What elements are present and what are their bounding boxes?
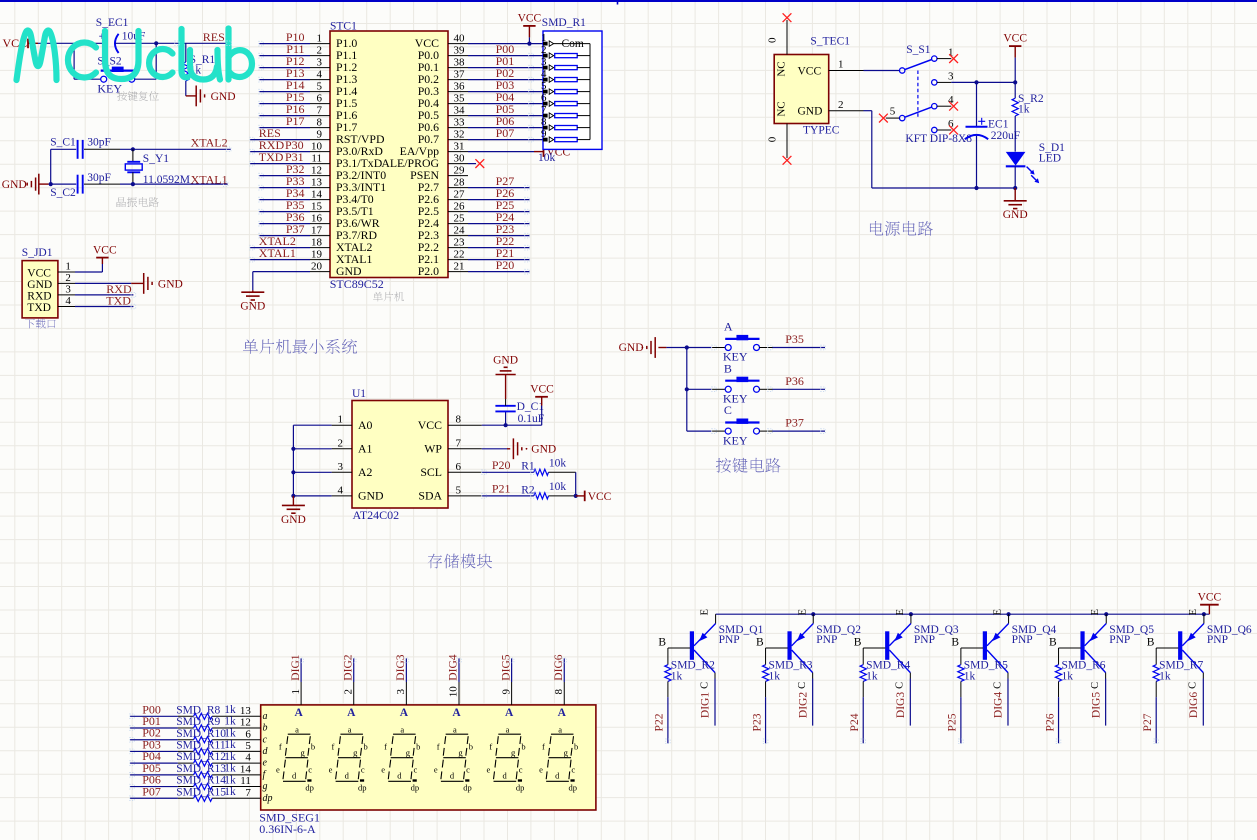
display pin number 5 [245, 740, 251, 752]
svg-text:XTAL1: XTAL1 [191, 173, 228, 187]
svg-text:d: d [450, 770, 455, 780]
svg-text:10k: 10k [538, 152, 556, 164]
svg-text:40: 40 [454, 32, 466, 44]
svg-text:c: c [308, 765, 312, 775]
title cun chu mo kuai [428, 554, 492, 569]
svg-text:1k: 1k [224, 716, 236, 728]
U1 pin numbers [338, 414, 462, 497]
svg-text:P25: P25 [947, 713, 959, 731]
net label DIG5 (driver) [1090, 692, 1102, 718]
svg-text:dp: dp [358, 783, 367, 793]
label KEY C [723, 433, 748, 447]
svg-text:5: 5 [456, 484, 462, 496]
svg-text:KFT DIP-8X8: KFT DIP-8X8 [905, 133, 972, 145]
SMD_R1 pin number 2 [541, 44, 547, 56]
transistor SMD_Q3 PNP [885, 609, 911, 689]
svg-text:39: 39 [454, 44, 466, 56]
MCU STC1 body [330, 31, 448, 278]
display designator SMD_SEG1 [259, 810, 320, 824]
svg-text:C: C [895, 682, 906, 689]
wire net P10 [259, 43, 310, 45]
wire ALE pin30 stub [468, 163, 476, 165]
svg-text:P23: P23 [751, 713, 763, 731]
net label TXD P31 [259, 150, 304, 164]
display SMD_SEG1 body [261, 705, 596, 810]
svg-text:NC: NC [776, 101, 788, 116]
svg-text:2: 2 [65, 272, 71, 284]
wire net P02 (display) [130, 739, 261, 741]
svg-text:B: B [854, 636, 862, 648]
key switch S_S2 [97, 56, 134, 83]
svg-text:a: a [348, 724, 352, 734]
svg-text:P2.0: P2.0 [418, 264, 439, 278]
svg-text:8: 8 [553, 689, 565, 695]
svg-text:b: b [574, 742, 578, 752]
svg-text:10uF: 10uF [122, 30, 146, 42]
SMD_R1 pin number 9 [541, 128, 547, 140]
svg-text:10: 10 [311, 140, 323, 152]
svg-text:DIG5: DIG5 [1090, 692, 1102, 718]
transistor SMD_Q1 labels [719, 624, 764, 646]
svg-text:GND: GND [1003, 209, 1028, 221]
svg-text:22: 22 [454, 248, 465, 260]
svg-text:1k: 1k [224, 751, 236, 763]
SMD_R1 pin number 5 [541, 80, 547, 92]
capacitor S_C2 30pF [50, 172, 111, 199]
wire net P07 (display) [130, 797, 261, 799]
junction node (cap/switch/RES) [154, 41, 158, 45]
ground (reset) [193, 86, 236, 107]
wire net P22 [667, 681, 669, 743]
svg-text:C: C [1090, 682, 1101, 689]
svg-text:b: b [521, 742, 525, 752]
svg-text:P20: P20 [496, 258, 515, 272]
net label P22 [496, 234, 515, 248]
svg-text:0: 0 [767, 136, 779, 142]
wire net P14 [259, 91, 310, 93]
svg-text:KEY: KEY [723, 433, 748, 447]
svg-text:34: 34 [454, 104, 466, 116]
S_S1 pin1 stub [937, 47, 954, 59]
MCU STC1 designator [330, 21, 357, 33]
wire EA/Vpp pin31 to VCC [468, 151, 534, 153]
SMD_R1 pin 7 indicator [543, 113, 554, 118]
resistor S_R2 1k [1012, 82, 1044, 151]
seven-segment glyph digit 4 [434, 724, 473, 792]
MCU part number STC89C52 [330, 277, 384, 291]
svg-text:6: 6 [245, 728, 251, 740]
svg-text:SCL: SCL [420, 465, 442, 479]
svg-text:31: 31 [454, 140, 465, 152]
wire key C right [759, 430, 825, 432]
svg-text:E: E [797, 609, 808, 615]
net label P23 [751, 713, 763, 731]
svg-text:DIG3: DIG3 [895, 692, 907, 718]
svg-text:A: A [400, 707, 409, 719]
wire S_JD1 pin4 TXD [58, 306, 133, 308]
wire collector net DIG2 [812, 673, 814, 726]
svg-text:16: 16 [311, 212, 323, 224]
net label P17 [286, 114, 305, 128]
svg-text:P26: P26 [1044, 713, 1056, 731]
net label P23 [496, 222, 515, 236]
wire XTAL1 net [51, 149, 228, 184]
svg-text:28: 28 [454, 176, 466, 188]
svg-text:VCC: VCC [588, 491, 612, 503]
svg-text:R2: R2 [521, 484, 535, 496]
svg-text:a: a [295, 724, 299, 734]
key switch C (KEY) [724, 403, 760, 434]
svg-text:1k: 1k [1159, 670, 1171, 682]
svg-text:B: B [756, 636, 764, 648]
svg-text:21: 21 [454, 260, 465, 272]
display pin number 13 [240, 705, 252, 717]
wire digit net DIG6 [563, 658, 565, 705]
net label DIG1 (display) [290, 654, 302, 680]
MCU pin names [336, 36, 439, 278]
SMD_R1 resistor element 7 [554, 114, 590, 118]
svg-text:a: a [453, 724, 457, 734]
display common label A digit 6 [558, 707, 567, 719]
display pin number 12 [240, 717, 251, 729]
net label P01 (display) [142, 714, 161, 728]
display pin number 8 [553, 689, 565, 695]
net label P36 [785, 374, 804, 388]
net label P37 [785, 416, 804, 430]
SMD_R1 pin 5 indicator [543, 89, 554, 94]
svg-text:13: 13 [240, 705, 252, 717]
wire net P15 [259, 103, 310, 105]
U1 pins right [448, 425, 482, 496]
transistor SMD_Q4 labels [1012, 624, 1057, 646]
net label P05 [496, 102, 515, 116]
wire XTAL2 net [51, 148, 231, 150]
svg-text:S_S1: S_S1 [906, 44, 931, 56]
MCU pin numbers right 40-21 [454, 32, 466, 272]
net label P16 [286, 102, 305, 116]
wire collector net DIG5 [1105, 673, 1107, 726]
svg-text:7: 7 [456, 437, 462, 449]
svg-text:VCC: VCC [798, 66, 822, 78]
display pin number 14 [240, 763, 252, 775]
svg-text:SMD_R10: SMD_R10 [176, 728, 226, 740]
svg-text:XTAL2: XTAL2 [191, 135, 228, 149]
U1 pins left [332, 425, 352, 496]
svg-text:c: c [361, 765, 365, 775]
junction crystal top [131, 147, 135, 151]
transistor SMD_Q2 labels [816, 624, 861, 646]
wire digit net DIG1 [300, 658, 302, 705]
SMD_R1 pin 1 indicator [543, 41, 554, 46]
net label P35 [286, 198, 305, 212]
svg-text:NC: NC [776, 61, 788, 76]
net label P27 [1142, 713, 1154, 731]
svg-text:2: 2 [338, 437, 344, 449]
svg-text:c: c [466, 765, 470, 775]
wire net P16 [259, 115, 310, 117]
svg-text:7: 7 [317, 104, 323, 116]
junction EC1 top [974, 80, 978, 84]
svg-text:A2: A2 [358, 465, 373, 479]
net label DIG3 (display) [395, 654, 407, 680]
net label P26 [496, 186, 515, 200]
svg-text:PNP: PNP [1012, 634, 1033, 646]
junction S_R2 top [1013, 80, 1017, 84]
wire net RES (pin9) [250, 139, 310, 141]
SMD_R1 resistor element 6 [554, 102, 590, 106]
ground (U1 WP) [507, 438, 556, 459]
svg-text:e: e [263, 758, 268, 769]
net label P21 [496, 246, 515, 260]
svg-text:f: f [384, 742, 387, 752]
switch S_S1 link dashed [917, 71, 919, 119]
wire net P00 (display) [130, 715, 261, 717]
svg-text:TXD: TXD [27, 302, 51, 314]
resistor SMD_R8 1k [176, 704, 236, 719]
wire base Q1 [658, 636, 690, 664]
svg-text:dp: dp [516, 783, 525, 793]
transistor SMD_Q6 labels [1207, 624, 1252, 646]
no-connect X top [783, 13, 792, 22]
net label P04 [496, 90, 515, 104]
svg-text:g: g [353, 748, 358, 758]
power port VCC (S_JD1) [93, 245, 117, 264]
svg-text:B: B [658, 636, 666, 648]
svg-text:f: f [332, 742, 335, 752]
svg-text:b: b [311, 742, 315, 752]
display segment letter c [263, 734, 268, 745]
wire net XTAL2 (pin18) [250, 247, 310, 249]
transistor SMD_Q5 PNP [1080, 609, 1106, 689]
svg-text:PNP: PNP [914, 634, 935, 646]
svg-text:1k: 1k [866, 670, 878, 682]
caption dan pian ji [373, 292, 404, 302]
wire net P21 [468, 259, 529, 261]
junction key B [685, 387, 689, 391]
title an jian dian lu [716, 458, 781, 473]
net label P01 [496, 54, 515, 68]
wire net P04 (display) [130, 762, 261, 764]
wire base Q5 [1049, 636, 1081, 664]
switch S_S1 pole contacts [900, 56, 938, 133]
svg-text:A: A [347, 707, 356, 719]
display common label A digit 2 [347, 707, 356, 719]
svg-text:dp: dp [569, 783, 578, 793]
svg-text:4: 4 [65, 295, 71, 307]
svg-text:A: A [452, 707, 461, 719]
wire net P32 [259, 175, 310, 177]
power port VCC (drivers) [1198, 592, 1222, 615]
no-connect X S_S1 pin1 [949, 54, 958, 63]
svg-text:b: b [416, 742, 420, 752]
svg-text:3: 3 [317, 56, 323, 68]
svg-text:E: E [895, 609, 906, 615]
resistor SMD_R2 1k [665, 660, 715, 683]
svg-text:B: B [951, 636, 959, 648]
svg-text:S_C2: S_C2 [50, 187, 76, 199]
svg-text:S_C1: S_C1 [50, 137, 76, 149]
svg-text:P37: P37 [785, 416, 804, 430]
seven-segment glyph digit 1 [276, 724, 315, 792]
svg-text:a: a [400, 724, 404, 734]
svg-text:18: 18 [311, 236, 323, 248]
svg-text:e: e [539, 765, 543, 775]
SMD_R1 pin 4 indicator [543, 77, 554, 82]
wire switch left branch [74, 43, 101, 79]
wire net P27 [468, 187, 529, 189]
svg-text:27: 27 [454, 188, 466, 200]
SMD_R1 pin 9 indicator [543, 137, 554, 142]
svg-text:GND: GND [158, 278, 183, 290]
svg-text:GND: GND [281, 514, 306, 526]
svg-text:0: 0 [767, 37, 779, 43]
SMD_R1 pin number 4 [541, 68, 547, 80]
display pin number 9 [500, 689, 512, 695]
svg-text:f: f [542, 742, 545, 752]
net label RES [203, 30, 225, 44]
net label P02 [496, 66, 515, 80]
svg-text:30pF: 30pF [87, 137, 111, 149]
net label P11 [286, 42, 304, 56]
display segment letter dp [263, 793, 273, 804]
svg-text:c: c [413, 765, 417, 775]
wire U1 pin7 to ground [482, 448, 507, 450]
svg-text:e: e [434, 765, 438, 775]
junction A2 [291, 470, 295, 474]
display common label A digit 4 [452, 707, 461, 719]
svg-text:1k: 1k [224, 739, 236, 751]
caption jing zhen dian lu [117, 197, 159, 207]
svg-text:1k: 1k [1018, 103, 1030, 115]
svg-text:B: B [724, 361, 732, 375]
svg-text:f: f [437, 742, 440, 752]
svg-text:XTAL1: XTAL1 [259, 246, 296, 260]
svg-text:g: g [300, 748, 305, 758]
resistor R1 labels [521, 458, 566, 473]
svg-text:5: 5 [245, 740, 251, 752]
net label RXD [106, 282, 132, 296]
svg-text:dp: dp [305, 783, 314, 793]
net label P00 (display) [142, 702, 161, 716]
junction bottom rail EC1 [974, 186, 978, 190]
svg-text:4: 4 [338, 484, 344, 496]
resistor SMD_R6 1k [1055, 660, 1105, 683]
resistor SMD_R14 1k [176, 774, 236, 789]
svg-text:S_EC1: S_EC1 [96, 17, 129, 29]
net label P02 (display) [142, 726, 161, 740]
S_TEC1 pin1 wire [829, 59, 900, 71]
SMD_R1 pin number 7 [541, 104, 547, 116]
svg-text:1k: 1k [964, 670, 976, 682]
EEPROM U1 designator [352, 388, 366, 400]
resistor SMD_R13 1k [176, 763, 236, 778]
ground (U1) [281, 496, 306, 526]
seven-segment glyph digit 2 [329, 724, 368, 792]
label Com [562, 38, 584, 50]
wire base Q3 [854, 636, 886, 664]
S_S1 pin6 stub [937, 118, 954, 130]
svg-text:20: 20 [311, 260, 323, 272]
resistor SMD_R11 1k [176, 739, 236, 754]
svg-text:1: 1 [338, 414, 344, 426]
svg-text:1k: 1k [224, 774, 236, 786]
svg-text:DIG4: DIG4 [448, 654, 460, 680]
wire net P03 (display) [130, 750, 261, 752]
MCU pins left [310, 44, 330, 272]
svg-text:P20: P20 [492, 458, 511, 472]
svg-text:b: b [469, 742, 473, 752]
transistor SMD_Q1 PNP [690, 609, 716, 689]
wire net P20 [468, 271, 529, 273]
S_TEC1 bottom pin 0 [767, 124, 788, 159]
svg-text:14: 14 [240, 763, 252, 775]
display part 0.36IN-6-A [259, 822, 316, 836]
svg-text:SMD_R12: SMD_R12 [176, 751, 226, 763]
wire VCC to capacitor S_EC1 [38, 42, 103, 44]
SMD_R1 pin number 1 [541, 32, 547, 44]
svg-text:dp: dp [263, 793, 273, 804]
svg-text:Com: Com [562, 38, 584, 50]
wire net P22 [468, 247, 529, 249]
wire collector net DIG3 [909, 673, 911, 726]
display pin number 7 [245, 787, 251, 799]
net label DIG4 (driver) [993, 692, 1005, 718]
svg-text:C: C [1188, 682, 1199, 689]
svg-text:DIG6: DIG6 [1188, 692, 1200, 718]
wire digit net DIG5 [511, 658, 513, 705]
svg-text:d: d [502, 770, 507, 780]
wire U1 address bus [293, 425, 331, 496]
capacitor S_C1 30pF [50, 137, 111, 159]
resistor SMD_R10 1k [176, 727, 236, 742]
S_S1 pin3 wire [937, 70, 1015, 82]
wire VCC pin40 [468, 43, 543, 45]
svg-text:8: 8 [317, 116, 323, 128]
svg-text:14: 14 [311, 188, 323, 200]
net label P05 (display) [142, 761, 161, 775]
seven-segment glyph digit 5 [487, 724, 526, 792]
wire net P06 (display) [130, 786, 261, 788]
svg-text:7: 7 [245, 787, 251, 799]
sheet border top edge [0, 0, 1257, 5]
label KEY B [723, 392, 748, 406]
display pin number 6 [245, 728, 251, 740]
svg-text:10: 10 [448, 686, 460, 698]
svg-text:GND: GND [2, 179, 27, 191]
SMD_R1 pin number 3 [541, 56, 547, 68]
svg-text:WP: WP [424, 442, 442, 456]
wire net P37 [259, 235, 310, 237]
svg-text:C: C [724, 403, 732, 417]
SMD_R1 pin 8 indicator [543, 125, 554, 130]
svg-text:B: B [1147, 636, 1155, 648]
caption xia zai kou [25, 319, 55, 329]
wire S_R1 to ground [186, 81, 193, 96]
junction bottom rail LED [1013, 186, 1017, 190]
net label P06 (display) [142, 773, 161, 787]
junction A1 [291, 447, 295, 451]
net label P21 [492, 482, 511, 496]
svg-text:SMD_R1: SMD_R1 [542, 17, 586, 29]
MCU pins right [448, 44, 468, 272]
svg-text:23: 23 [454, 236, 466, 248]
connector S_TEC1 designator [810, 35, 850, 47]
display common label A digit 3 [400, 707, 409, 719]
svg-text:e: e [487, 765, 491, 775]
wire base Q4 [951, 636, 983, 664]
wire net P04 [468, 103, 543, 105]
svg-text:25: 25 [454, 212, 466, 224]
